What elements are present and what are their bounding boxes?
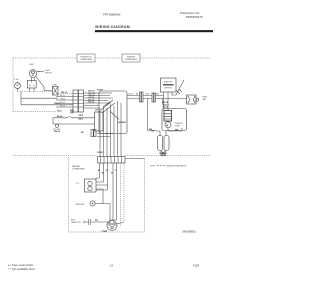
ground wires dashed [121, 163, 125, 226]
svg-text:OVERLOAD: OVERLOAD [75, 203, 85, 206]
wire ADC leads [164, 92, 177, 99]
wire junctions [176, 89, 182, 94]
start relay K1 [76, 179, 108, 204]
connector J4 bars [152, 93, 156, 102]
adaptive defrost control box U1 [161, 78, 177, 92]
svg-text:OR-8: OR-8 [79, 115, 84, 117]
wire dashed light circuit [18, 91, 53, 93]
cabinet top dashed boundary [13, 57, 211, 59]
svg-text:* = Non-Available Parts: * = Non-Available Parts [8, 267, 36, 271]
door switch [15, 81, 21, 88]
wire WH return long [148, 99, 157, 131]
svg-text:MACHINE: MACHINE [72, 165, 81, 168]
defrost enclosure [162, 109, 187, 131]
wire switch leads down [30, 88, 35, 92]
svg-text:COMP: COMP [102, 231, 108, 233]
svg-text:OR-14: OR-14 [128, 93, 133, 95]
svg-text:LIGHT: LIGHT [29, 64, 34, 66]
svg-text:ADAPTIVE: ADAPTIVE [164, 81, 173, 84]
wires J3 to J4 [143, 96, 152, 99]
mullion heater loop [53, 118, 95, 124]
wires connector to control box [84, 93, 114, 108]
fresh food compartment label box [77, 54, 95, 62]
connector J3 bars [140, 92, 144, 102]
svg-text:FREEZER: FREEZER [127, 56, 136, 58]
cabinet bottom-left dashed [13, 111, 56, 113]
wire connector converge [160, 151, 167, 153]
svg-text:♦ = Fast-moving Parts: ♦ = Fast-moving Parts [8, 263, 34, 267]
svg-text:BK-41: BK-41 [57, 115, 62, 118]
svg-text:OR-8: OR-8 [145, 93, 149, 95]
svg-text:GN-8: GN-8 [57, 110, 62, 112]
switch break [67, 116, 72, 118]
wire label column [88, 90, 95, 104]
svg-text:WIRING IN FREEZER DR: WIRING IN FREEZER DR [167, 165, 187, 167]
drain heater [55, 124, 58, 127]
svg-text:LT SW: LT SW [14, 79, 19, 81]
compressor motor M2 [107, 221, 117, 231]
wire harness entries to connector [56, 97, 73, 108]
wires bundle into connector [100, 134, 121, 157]
ground pointer [110, 111, 119, 120]
svg-text:TSTAT: TSTAT [175, 124, 180, 127]
svg-text:NOTE:: NOTE: [150, 165, 156, 167]
freezer compartment label box [122, 54, 140, 62]
svg-text:WH-14: WH-14 [54, 130, 61, 133]
cabinet left dashed boundary [12, 58, 14, 112]
svg-text:FRESH FOOD: FRESH FOOD [80, 56, 92, 58]
heater connector P5 [158, 136, 170, 151]
svg-text:WIRING DIAGRAM: WIRING DIAGRAM [95, 25, 130, 29]
mullion dashed boundary left [13, 155, 97, 157]
wire right return [163, 99, 183, 132]
svg-text:BK-14: BK-14 [60, 95, 65, 97]
svg-text:DEFROST: DEFROST [164, 87, 172, 89]
FF light bulb [29, 70, 37, 78]
wire label bars [160, 153, 167, 154]
svg-text:5995356670: 5995356670 [186, 15, 203, 19]
defrost thermostat S3 [165, 122, 171, 128]
wire door switch lead [17, 89, 19, 92]
wire bundle verticals [100, 101, 121, 134]
defrost heater R1 [164, 111, 172, 122]
svg-text:WH-14: WH-14 [61, 91, 68, 94]
wire code tags [98, 170, 117, 175]
harness connector to machine compartment [97, 152, 125, 163]
wire heater leads [156, 128, 182, 136]
overload protector [75, 201, 110, 221]
cold control contacts [101, 100, 115, 113]
svg-text:CAPACITOR: CAPACITOR [71, 221, 81, 224]
freezer bottom dashed boundary [125, 155, 211, 157]
svg-text:19: 19 [110, 264, 113, 268]
wire bulb leads [31, 77, 34, 80]
svg-text:O: O [115, 170, 117, 172]
machine compartment dashed box [69, 157, 145, 232]
run capacitor C1 [71, 219, 110, 225]
light switch body [27, 81, 36, 89]
control box enclosure [99, 91, 127, 134]
wire dashed to connector [58, 93, 73, 95]
wires control box to freezer bus [127, 96, 140, 99]
wire diagonal to fan [176, 80, 184, 95]
wire light diagonal [36, 77, 53, 91]
svg-text:RD-14: RD-14 [60, 105, 65, 107]
svg-text:GROUND: GROUND [118, 122, 127, 124]
light switch pointer arrow [37, 71, 44, 73]
plug P6 [81, 130, 96, 137]
svg-text:F183: F183 [193, 264, 200, 268]
wire power L [21, 92, 73, 105]
connector J1 [73, 90, 84, 112]
legend note [150, 165, 187, 167]
svg-text:240388801: 240388801 [182, 230, 196, 234]
wires down to defrost heater [164, 96, 169, 111]
machine box top right solid [125, 158, 145, 160]
splice ticks on green wire [70, 110, 71, 113]
svg-text:FRT18B5AW: FRT18B5AW [103, 12, 121, 16]
header rule [95, 30, 213, 32]
connector plug P2 [52, 85, 58, 95]
svg-text:BK-8: BK-8 [79, 119, 83, 121]
svg-text:OR-14: OR-14 [60, 98, 65, 100]
evaporator fan motor M1 [187, 95, 199, 104]
svg-text:COMPARTMENT: COMPARTMENT [72, 168, 85, 171]
wires J4 to ADC and fan [156, 96, 188, 99]
damper control box [95, 112, 104, 131]
svg-text:COMPARTMENT: COMPARTMENT [79, 58, 92, 61]
svg-text:RD-14: RD-14 [88, 101, 95, 104]
svg-text:SWITCH: SWITCH [45, 72, 52, 74]
svg-text:BU-14: BU-14 [60, 102, 65, 104]
wires connector to relay [96, 163, 117, 221]
svg-text:COMPARTMENT: COMPARTMENT [124, 58, 137, 61]
